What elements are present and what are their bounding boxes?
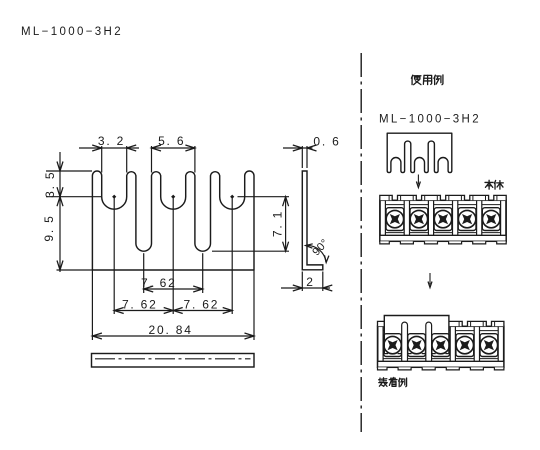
terminal block cell shelf lines bbox=[385, 204, 404, 206]
kanji label 装着例 bbox=[379, 378, 381, 382]
front view comb outline bbox=[92, 171, 254, 270]
bottom bar outline bbox=[92, 354, 255, 368]
dim 20.84 line and arrows bbox=[92, 335, 254, 337]
dim 7.1 extension line at deep slot bottom bbox=[212, 250, 289, 252]
svg-text:ML−1000−3H2: ML−1000−3H2 bbox=[379, 114, 481, 126]
left vertical dimension line bbox=[59, 152, 61, 272]
bottom edge extension line to left bbox=[57, 269, 93, 271]
svg-text:7. 62: 7. 62 bbox=[122, 297, 158, 311]
jumper bottom edge ticks bbox=[384, 353, 388, 355]
horizontal centerline right of slot3 to 7.1 dim bbox=[238, 196, 290, 198]
side view L-profile outline bbox=[302, 171, 323, 270]
terminal block base rail bbox=[380, 234, 506, 236]
terminal block outer body bbox=[378, 326, 504, 367]
terminal block feet bbox=[378, 367, 388, 370]
kanji label 本体 bbox=[485, 181, 493, 183]
slot vertical centerlines bbox=[113, 197, 115, 314]
down arrow 1 bbox=[417, 175, 419, 185]
svg-text:3. 2: 3. 2 bbox=[98, 134, 125, 148]
terminal block base rail bbox=[378, 360, 504, 362]
terminal block feet bbox=[380, 241, 390, 244]
bottom bar dash-dot centerline bbox=[95, 358, 251, 360]
dim 0.6 extension lines up bbox=[301, 146, 303, 168]
svg-text:0. 6: 0. 6 bbox=[313, 134, 340, 148]
svg-text:20. 84: 20. 84 bbox=[149, 323, 193, 337]
left dim arrows bbox=[57, 162, 63, 172]
svg-text:9. 5: 9. 5 bbox=[42, 214, 56, 241]
terminal block screws bbox=[386, 210, 403, 227]
jumper overlay white body bbox=[384, 316, 449, 333]
terminal block clamp pads bbox=[384, 334, 402, 357]
svg-text:7. 62: 7. 62 bbox=[184, 297, 220, 311]
90 degree bend arc with arrows bbox=[306, 245, 326, 262]
svg-text:ML−1000−3H2: ML−1000−3H2 bbox=[21, 26, 123, 38]
terminal block screws bbox=[384, 336, 401, 353]
terminal block barrier walls bbox=[379, 200, 381, 235]
dim 2 extension lines down bbox=[301, 272, 303, 292]
svg-text:7. 1: 7. 1 bbox=[271, 210, 285, 237]
dim 2 line and outside arrows bbox=[281, 287, 330, 289]
vertical dash-dot separator bbox=[360, 53, 362, 432]
terminal block barrier walls bbox=[377, 326, 379, 361]
terminal block outer body bbox=[380, 200, 506, 241]
kanji label 使用例 bbox=[411, 75, 412, 78]
dim 3.2 line and arrows bbox=[79, 147, 139, 149]
dim 7.62 row2 line and arrows bbox=[114, 310, 232, 312]
down arrow 2 bbox=[429, 273, 431, 285]
dim 7.62 row1 line and arrows bbox=[144, 288, 203, 290]
jumper deep slot posts bbox=[402, 322, 408, 360]
horizontal centerline left of slot1 bbox=[46, 196, 102, 198]
dim 5.6 line and arrows bbox=[152, 147, 195, 149]
svg-text:7. 62: 7. 62 bbox=[141, 276, 177, 290]
dim 7.1 vertical line and arrows bbox=[285, 197, 287, 252]
svg-text:5. 6: 5. 6 bbox=[158, 134, 185, 148]
terminal block cell shelf lines bbox=[383, 330, 402, 332]
jumper comb icon bbox=[387, 133, 452, 172]
left dims: extension line top edge bbox=[46, 170, 92, 172]
center marks in screw slots bbox=[112, 195, 116, 199]
terminal block top tabs bbox=[380, 195, 392, 200]
deep slot centerlines down bbox=[143, 253, 145, 293]
terminal block clamp pads bbox=[386, 208, 404, 231]
dim 5.6 extension lines bbox=[151, 146, 153, 173]
svg-text:2: 2 bbox=[306, 275, 314, 289]
part edge extension lines down bbox=[91, 270, 93, 340]
dim 0.6 line and outside arrows bbox=[283, 147, 313, 149]
terminal block top tabs bbox=[378, 321, 390, 326]
svg-text:3. 5: 3. 5 bbox=[43, 171, 57, 198]
dim 3.2 extension lines bbox=[101, 146, 103, 173]
